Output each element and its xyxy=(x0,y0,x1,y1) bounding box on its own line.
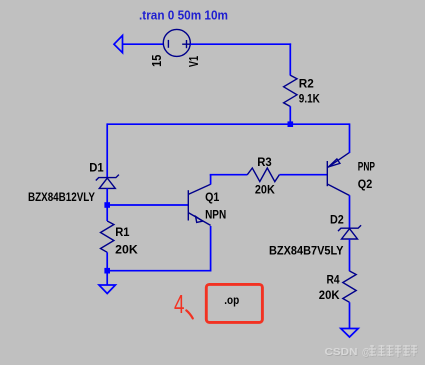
svg-text:CSDN: CSDN xyxy=(325,346,358,358)
V1 minus mark xyxy=(167,40,169,48)
svg-text:.tran 0 50m 10m: .tran 0 50m 10m xyxy=(139,8,228,22)
svg-text:NPN: NPN xyxy=(205,208,226,222)
svg-text:20K: 20K xyxy=(115,243,138,257)
svg-text:PNP: PNP xyxy=(358,159,375,173)
wire down to R2 xyxy=(289,43,291,75)
wire junction to ground xyxy=(106,271,108,285)
svg-text:R2: R2 xyxy=(299,77,314,91)
wire Q1 collector up xyxy=(210,175,212,185)
watermark CSDN shadow xyxy=(325,347,371,359)
ground arrow terminal (left of V1) xyxy=(114,36,123,53)
resistor R3 xyxy=(247,168,279,182)
wire rail down to D1 xyxy=(106,123,108,177)
resistor R4 xyxy=(343,271,356,302)
svg-text:20K: 20K xyxy=(319,288,340,302)
wire D2 to R4 xyxy=(349,239,351,271)
wire D1 to junction xyxy=(106,188,108,205)
junction R2/rail xyxy=(288,121,294,127)
resistor R1 xyxy=(101,221,114,252)
svg-text:4: 4 xyxy=(174,289,185,319)
resistor R2 xyxy=(284,75,297,106)
svg-text:20K: 20K xyxy=(255,182,275,196)
ground (right) xyxy=(341,329,358,338)
annotation red box xyxy=(206,284,262,322)
watermark CJK glyph strokes xyxy=(369,345,417,357)
svg-text:15: 15 xyxy=(150,55,164,67)
svg-text:V1: V1 xyxy=(187,56,201,67)
svg-text:R1: R1 xyxy=(115,225,130,239)
svg-text:9.1K: 9.1K xyxy=(299,92,320,106)
svg-text:D2: D2 xyxy=(330,213,344,227)
svg-text:R4: R4 xyxy=(327,273,340,287)
voltage source V1 circle xyxy=(163,29,190,56)
wire R2 to junction xyxy=(289,106,291,124)
svg-text:Q1: Q1 xyxy=(205,190,219,204)
svg-text:Q2: Q2 xyxy=(358,177,373,191)
svg-text:D1: D1 xyxy=(89,161,104,175)
transistor Q1 (NPN) xyxy=(188,184,210,225)
svg-text:BZX84B7V5LY: BZX84B7V5LY xyxy=(269,244,344,258)
V1 plus mark xyxy=(182,40,191,48)
wire V1 to top right corner xyxy=(190,43,291,45)
transistor Q2 (PNP) xyxy=(327,152,349,195)
base wire to Q1 xyxy=(107,204,188,206)
emitter return wire horizontal xyxy=(107,270,210,272)
annotation dun-comma xyxy=(186,310,193,318)
svg-text:@: @ xyxy=(362,346,370,358)
zener diode D1 xyxy=(96,175,119,189)
svg-text:.op: .op xyxy=(224,295,239,307)
main horizontal rail xyxy=(107,123,349,125)
wire R3 to Q2 base xyxy=(279,174,327,176)
wire Q1 emitter down xyxy=(210,226,212,272)
wire R4 to ground xyxy=(349,302,351,328)
zener diode D2 xyxy=(338,225,361,239)
wire arrow to V1 xyxy=(123,43,164,45)
junction D1/R1/base xyxy=(104,202,110,208)
svg-text:BZX84B12VLY: BZX84B12VLY xyxy=(28,190,95,204)
wire rail down to Q2 emitter xyxy=(349,123,351,153)
wire Q2 collector down to D2 xyxy=(349,195,351,228)
junction R1/ground/emitter xyxy=(104,268,110,274)
ground (left) xyxy=(99,285,115,294)
wire junction to R1 xyxy=(106,204,108,221)
wire R1 to bottom junction xyxy=(106,252,108,270)
wire collector to R3 xyxy=(210,174,248,176)
svg-text:R3: R3 xyxy=(257,155,272,169)
watermark CSDN highlight xyxy=(325,346,371,358)
